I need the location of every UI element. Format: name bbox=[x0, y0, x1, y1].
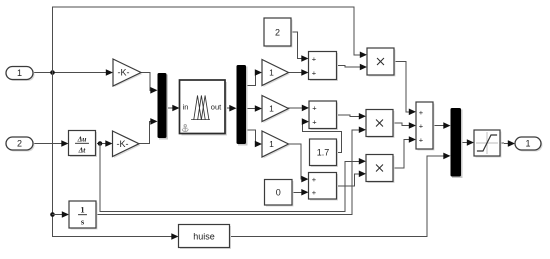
wire: sum S1 out to product P1 input2 bbox=[337, 66, 361, 68]
wire: input1 to gain K1 with branch node bbox=[33, 72, 106, 74]
gain K2 (-K- triangle) bbox=[113, 131, 141, 158]
input port 1 bbox=[6, 67, 35, 82]
membership functions icon bbox=[192, 96, 210, 120]
wire: gain K1 out to mux input1 bbox=[141, 73, 151, 91]
constant 0 bbox=[265, 180, 294, 207]
wire: error feedback down to integrator and huise bbox=[53, 73, 172, 237]
wire: input2 to derivative bbox=[33, 143, 62, 145]
svg-text:+: + bbox=[312, 68, 317, 77]
wire: constant 1.7 to sum S2 input2 (wrap around) bbox=[303, 122, 342, 153]
wire: mux M2 out to saturation bbox=[461, 142, 468, 144]
sum S2 bbox=[309, 101, 338, 130]
wire: sum S4 out to mux M2 input1 bbox=[433, 125, 444, 127]
wire: gain K2 out to mux input2 bbox=[139, 121, 151, 143]
anchor icon bbox=[182, 125, 188, 132]
sum S4 bbox=[416, 102, 435, 151]
svg-text:+: + bbox=[312, 117, 317, 126]
svg-text:+: + bbox=[419, 121, 424, 130]
svg-text:huise: huise bbox=[193, 231, 215, 241]
svg-text:Δu: Δu bbox=[77, 135, 87, 144]
wire: branch into integrator 1/s bbox=[53, 214, 63, 216]
svg-text:in: in bbox=[183, 102, 189, 111]
svg-text:2: 2 bbox=[17, 139, 22, 149]
node C (branch of derivative signal) bbox=[98, 141, 103, 146]
wire: sum S2 out to product P2 input1 bbox=[337, 115, 360, 117]
wire: sum S3 out to product P3 input2 bbox=[337, 174, 360, 186]
svg-text:+: + bbox=[419, 108, 424, 117]
arrow into gain K1 bbox=[106, 69, 113, 76]
demux D1 (black bar) bbox=[237, 65, 248, 146]
wire: huise out up to mux M2 input2 bbox=[230, 156, 444, 237]
svg-text:1: 1 bbox=[269, 139, 274, 149]
sum S1 bbox=[309, 52, 339, 82]
unity gain G2 bbox=[262, 96, 290, 124]
node B (branch to integrator) bbox=[50, 212, 55, 217]
saturation block bbox=[474, 130, 502, 158]
unity gain G1 bbox=[262, 60, 290, 88]
svg-text:-K-: -K- bbox=[117, 139, 129, 149]
wire: demux out3 to unity gain G3 bbox=[246, 130, 256, 144]
svg-text:1: 1 bbox=[80, 205, 84, 215]
constant 1.7 bbox=[310, 139, 339, 167]
wire: derivative branch down and right to product P3 bbox=[100, 144, 359, 212]
wire: integrator out along bottom up to product P2 input2 bbox=[96, 130, 359, 215]
wire: constant 0 to sum S3 input2 bbox=[292, 191, 302, 193]
sum S3 bbox=[309, 173, 339, 201]
svg-text:+: + bbox=[312, 54, 317, 63]
subsystem huise bbox=[179, 225, 232, 250]
integrator block 1/s bbox=[69, 201, 98, 230]
constant 2 bbox=[264, 18, 293, 48]
svg-text:1: 1 bbox=[525, 139, 530, 149]
wire: fuzzy controller out to demux bbox=[225, 107, 230, 109]
wire: product P2 out to sum S4 input2 bbox=[393, 123, 409, 126]
wire: product P3 out to sum S4 input3 bbox=[393, 140, 409, 169]
svg-text:-K-: -K- bbox=[118, 68, 130, 78]
svg-text:2: 2 bbox=[275, 27, 280, 37]
gain K1 (-K- triangle) bbox=[113, 59, 143, 87]
wire: error feedback up and across top to product P1 bbox=[53, 7, 361, 73]
svg-text:1: 1 bbox=[269, 68, 274, 78]
wire: demux out1 to unity gain G1 bbox=[246, 73, 256, 86]
wire: saturation out to output port 1 bbox=[500, 142, 508, 145]
svg-text:0: 0 bbox=[276, 188, 281, 198]
svg-text:1.7: 1.7 bbox=[317, 148, 330, 158]
unity gain G3 bbox=[262, 131, 290, 159]
product P3 bbox=[366, 155, 395, 184]
svg-text:+: + bbox=[312, 104, 317, 113]
svg-text:+: + bbox=[419, 135, 424, 144]
wire: gain G1 out to sum S1 input2 bbox=[289, 72, 302, 74]
svg-text:Δt: Δt bbox=[78, 146, 87, 155]
derivative block du/dt bbox=[69, 131, 98, 158]
product P2 bbox=[366, 110, 395, 139]
product P1 bbox=[367, 48, 396, 77]
wire: constant 2 to sum S1 input1 bbox=[291, 32, 302, 59]
svg-text:out: out bbox=[211, 102, 222, 111]
svg-text:+: + bbox=[312, 175, 317, 184]
wire: demux out2 to unity gain G2 bbox=[246, 107, 255, 109]
wire: gain G2 out to sum S2 input1 bbox=[289, 107, 303, 109]
svg-text:1: 1 bbox=[269, 104, 274, 114]
mux M2 (black bar) bbox=[451, 108, 463, 178]
node A (branch of input1 signal) bbox=[50, 70, 55, 75]
wire: mux out to fuzzy controller bbox=[167, 107, 173, 109]
wire: derivative out to gain K2 bbox=[96, 143, 107, 145]
output port 1 bbox=[515, 137, 543, 152]
input port 2 bbox=[6, 137, 35, 152]
wire: product P1 out to sum S4 input1 bbox=[394, 62, 409, 112]
mux M1 (black bar) bbox=[158, 73, 169, 140]
svg-text:1: 1 bbox=[17, 68, 22, 78]
fuzzy logic controller block bbox=[180, 80, 228, 136]
wire: gain G3 out to sum S3 input1 bbox=[289, 144, 302, 179]
svg-text:+: + bbox=[312, 188, 317, 197]
